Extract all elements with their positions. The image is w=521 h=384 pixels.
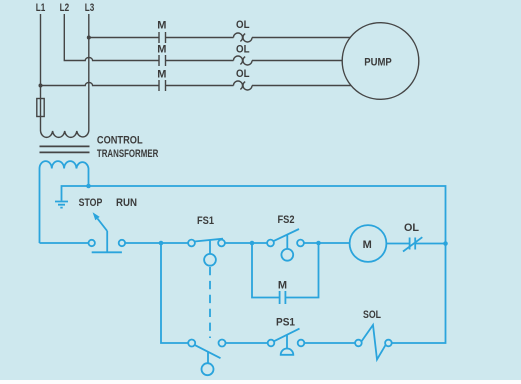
solenoid SOL: [355, 325, 392, 360]
wire L3 vertical: [88, 14, 90, 131]
svg-text:TRANSFORMER: TRANSFORMER: [97, 148, 158, 160]
wire line 1 to pump: [89, 37, 351, 39]
svg-text:L3: L3: [85, 2, 95, 14]
svg-text:OL: OL: [236, 19, 250, 31]
wire top rail and right rail: [89, 186, 446, 343]
svg-text:L2: L2: [60, 2, 70, 14]
svg-text:M: M: [157, 19, 166, 31]
node L3 tap: [87, 36, 91, 40]
overload heater OL line2: [234, 56, 253, 65]
contact M line3: [159, 80, 166, 91]
wire FS2 to M coil: [304, 242, 350, 244]
svg-text:OL: OL: [236, 44, 250, 56]
transformer T1 secondary winding with leads: [40, 161, 89, 243]
node right rail junction: [443, 241, 448, 246]
transformer T1 core: [40, 146, 90, 152]
node M-branch left tap: [250, 241, 255, 246]
svg-text:L1: L1: [36, 2, 46, 14]
flow switch FS1 contact: [188, 239, 225, 338]
node branch tap A: [159, 241, 164, 246]
svg-text:OL: OL: [236, 68, 250, 80]
flow switch FS2 contact: [267, 229, 304, 261]
wire M coil to OL: [386, 243, 409, 245]
svg-text:PS1: PS1: [276, 316, 295, 328]
wire ground tap: [62, 186, 89, 201]
svg-text:FS1: FS1: [197, 215, 214, 227]
wire L1 vertical: [40, 14, 42, 131]
wire L2 vertical and line 2 to pump: [64, 14, 342, 61]
svg-text:FS2: FS2: [278, 214, 295, 226]
svg-text:M: M: [157, 69, 166, 81]
coil M: [350, 225, 387, 262]
wire RUN to FS1: [125, 242, 188, 244]
svg-text:CONTROL: CONTROL: [97, 134, 143, 146]
contact OL normally closed: [403, 237, 422, 251]
wire FS1 to FS2: [225, 242, 267, 244]
overload heater OL line1: [234, 33, 253, 42]
svg-text:M: M: [363, 239, 372, 251]
wire PS1 to SOL: [304, 342, 355, 344]
svg-text:PUMP: PUMP: [364, 56, 392, 68]
motor PUMP: [342, 23, 419, 100]
svg-text:OL: OL: [404, 222, 419, 234]
overload heater OL line3: [234, 81, 253, 90]
wire OL to right rail: [415, 243, 445, 245]
transformer T1 primary winding: [41, 131, 89, 137]
svg-text:STOP: STOP: [79, 197, 103, 209]
node L1 tap: [39, 84, 43, 88]
svg-text:RUN: RUN: [116, 197, 137, 209]
svg-text:M: M: [278, 280, 287, 292]
svg-text:SOL: SOL: [363, 309, 381, 321]
ground: [55, 202, 68, 208]
contact M line2: [159, 55, 166, 66]
fuse F1: [37, 99, 44, 117]
wire lower FS to PS1: [226, 342, 268, 344]
pressure switch PS1: [268, 329, 305, 355]
wire lower branch vertical and rung: [161, 243, 188, 343]
pushbutton STOP/RUN: [89, 212, 126, 252]
node M-branch right tap: [316, 241, 321, 246]
flow switch FS1 lower contact: [188, 340, 225, 376]
wire left rail to STOP: [40, 242, 89, 244]
node secondary-ground junction: [86, 184, 91, 189]
contact M holding branch: [252, 243, 319, 304]
svg-text:M: M: [157, 44, 166, 56]
contact M line1: [159, 32, 166, 43]
wire line 3 to pump: [41, 83, 352, 86]
